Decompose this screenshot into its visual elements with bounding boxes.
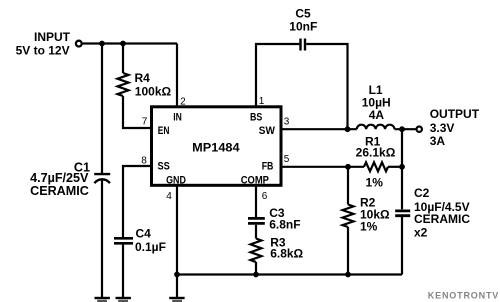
wire C1 branch upper [101,44,103,174]
wire C5 left / pin1 [256,44,299,106]
wire output column [401,129,403,209]
wire input horizontal [82,42,177,44]
input terminal [76,41,82,47]
svg-text:MP1484: MP1484 [192,140,240,154]
junction FB/R1/C2 [399,164,405,170]
svg-text:5V to 12V: 5V to 12V [16,44,70,58]
wire C1 lower [101,180,103,298]
capacitor C5 [301,39,306,51]
junction input/R4 [120,41,126,47]
ground GND pin [169,298,184,301]
wire pin2 drop [176,44,178,107]
resistor R4 [118,73,129,96]
svg-text:6.8nF: 6.8nF [269,218,300,232]
capacitor C1 (polarized) [94,174,110,183]
wire C4 lower [122,245,124,298]
junction node output/L1 [399,126,405,132]
junction FB/R2 [345,164,351,170]
wire R2 top lead [347,167,349,205]
svg-text:26.1kΩ: 26.1kΩ [356,146,396,160]
svg-text:IN: IN [173,112,182,124]
svg-text:INPUT: INPUT [34,30,71,44]
svg-text:1: 1 [259,96,265,107]
wire R2 bottom lead [347,227,349,275]
svg-text:C4: C4 [136,227,152,241]
inductor L1 [357,125,395,130]
capacitor C2 [395,211,410,216]
svg-text:0.1µF: 0.1µF [135,240,166,254]
wire SW pin3 [282,128,357,130]
wire R3 bottom lead [255,262,257,275]
wire FB pin5 [282,166,364,168]
wire C3 to R3 [255,225,257,239]
svg-text:CERAMIC: CERAMIC [414,212,470,226]
svg-text:COMP: COMP [241,174,270,186]
resistor R2 [343,205,354,227]
svg-text:10nF: 10nF [289,19,317,33]
svg-text:BS: BS [250,112,263,124]
svg-text:6: 6 [262,191,268,202]
svg-text:SW: SW [259,125,275,137]
resistor R1 [364,162,388,171]
svg-text:CERAMIC: CERAMIC [30,184,89,198]
svg-text:8: 8 [141,155,147,166]
output terminal [417,127,422,132]
svg-text:KENOTRONTV: KENOTRONTV [428,290,499,300]
svg-text:6.8kΩ: 6.8kΩ [270,247,303,261]
svg-text:7: 7 [142,117,148,128]
svg-text:2: 2 [180,96,186,107]
svg-text:1%: 1% [366,175,384,189]
capacitor C4 [114,238,133,243]
junction input/C1 [99,41,105,47]
wire R4 top lead [122,44,124,74]
ground C1 [95,298,110,301]
capacitor C3 [248,218,265,223]
IC U1 MP1484 body [152,107,282,186]
ground C4 [116,298,131,301]
wire C2 lower [401,217,403,275]
wire SS pin8 to C4 [123,166,151,237]
wire COMP pin6 to C3 [255,187,257,218]
wire R1 right [388,166,402,168]
svg-text:3: 3 [284,116,290,127]
svg-text:GND: GND [166,174,186,186]
svg-text:C2: C2 [414,186,430,200]
junction bus/R2 [345,272,351,278]
svg-text:FB: FB [262,161,274,173]
svg-text:EN: EN [158,125,170,137]
wire GND pin4 [176,187,178,298]
wire ground bus [177,273,402,275]
svg-text:R4: R4 [135,71,151,85]
svg-text:100kΩ: 100kΩ [135,84,172,98]
resistor R3 [251,239,262,263]
wire L1 to output [395,128,417,130]
svg-text:SS: SS [158,161,171,173]
junction SW/C5 [345,126,351,132]
svg-text:3.3V: 3.3V [430,121,455,135]
svg-text:4: 4 [166,191,172,202]
wire R4 to EN pin7 [123,96,151,128]
wire C5 right [306,44,347,129]
junction bus/R3 [253,272,259,278]
svg-text:4A: 4A [369,108,385,122]
junction bus/GND pin [174,272,180,278]
svg-text:x2: x2 [414,226,428,240]
svg-text:5: 5 [284,154,290,165]
svg-text:OUTPUT: OUTPUT [430,107,480,121]
svg-text:3A: 3A [430,134,446,148]
svg-text:1%: 1% [360,220,378,234]
